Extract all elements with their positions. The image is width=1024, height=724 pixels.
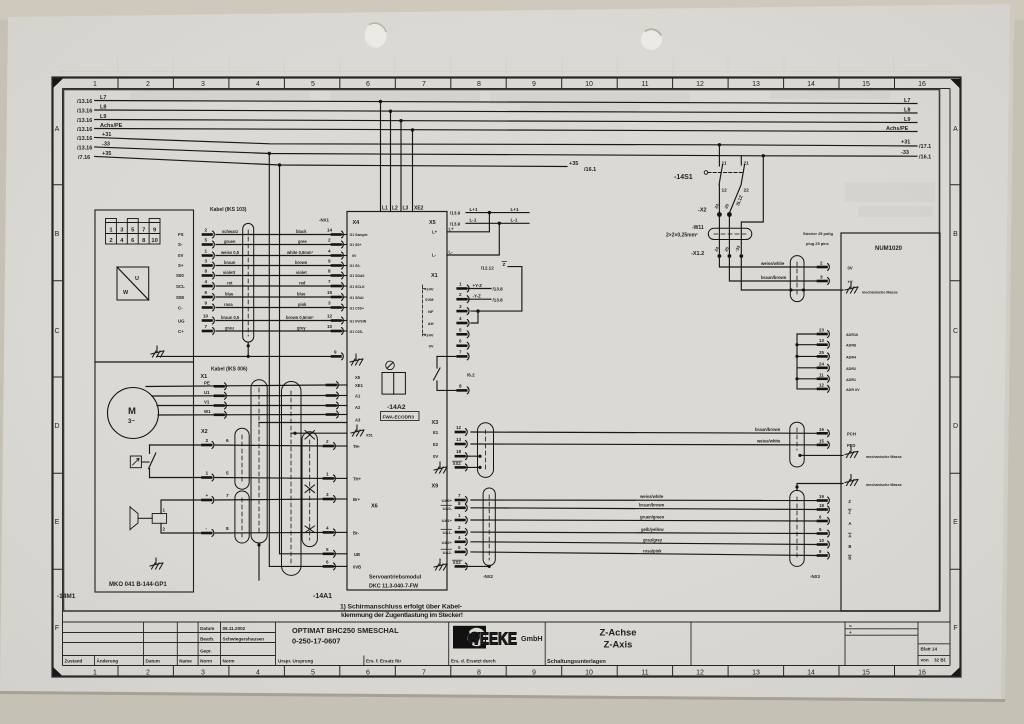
ground in encoder compartment	[151, 346, 164, 357]
shield ground wire to X4 pin 9	[157, 355, 332, 357]
motor wire W1	[158, 409, 347, 418]
row S-/gruen/gree/2/G1 S0+	[178, 238, 361, 248]
contact 11-12 blade	[719, 165, 723, 213]
row S0E/blau/blue/15/G1 SDAI	[176, 290, 364, 300]
motor wire U1	[152, 390, 347, 399]
pin 4 AH	[458, 320, 469, 327]
wire X2:24 down	[718, 216, 720, 254]
cable shield PCH	[790, 422, 804, 467]
paper bottom edge shadow	[0, 691, 1005, 702]
shield dash	[796, 262, 798, 295]
pin 5 +24V	[458, 331, 469, 338]
shield tube1 drain	[258, 543, 260, 580]
z-achse cell right line	[690, 622, 692, 666]
motor wire PE	[146, 381, 347, 390]
revision column lines	[95, 622, 276, 666]
X9 section	[432, 484, 496, 580]
wire 8 to servo	[215, 531, 324, 534]
wire braun/brown +Y	[729, 258, 818, 282]
wire weiss/white PFD	[471, 443, 818, 446]
shield drain wire to Masse	[800, 454, 843, 456]
twist mark 3	[305, 526, 315, 533]
title row line 1	[63, 632, 276, 634]
pin 3 into NUM	[818, 278, 829, 285]
grid numbers row2	[109, 238, 157, 244]
wire bus L9	[95, 120, 917, 123]
pin 13 ADR8	[818, 341, 829, 348]
twist mark 1	[305, 431, 315, 440]
encoder shield dash	[247, 230, 249, 336]
cable shield NX top	[790, 256, 804, 302]
pin 8	[458, 387, 469, 394]
wire drop -33 to X1.2	[741, 156, 763, 254]
screw head	[386, 361, 395, 370]
wire braun/brown Zbar	[471, 508, 818, 510]
ers f line	[363, 656, 365, 666]
pin 18 Zbar	[818, 506, 829, 513]
motor cable shield tube 2	[282, 382, 302, 576]
wire grau/grey B	[471, 542, 818, 545]
column ticks bottom	[118, 666, 895, 678]
corner triangle top-right	[951, 79, 961, 89]
pin 19 Z	[818, 497, 829, 504]
weeke cell right line	[544, 622, 546, 666]
firmware module -14A2	[381, 361, 420, 420]
corner triangle bottom-left	[53, 667, 63, 676]
wire L-	[447, 223, 499, 255]
brake solenoid	[130, 500, 212, 533]
switch actuator circle	[704, 171, 708, 175]
twist mark 2	[305, 485, 315, 493]
wire gelb/yellow Abar	[471, 532, 818, 533]
pin 10 B	[818, 541, 829, 548]
encoder connector grid	[106, 219, 161, 245]
ground X51	[351, 425, 364, 436]
bottom number strip line	[63, 665, 951, 667]
row S+/braun/brown/9/G1 S0-	[178, 259, 361, 269]
wire bus L7	[95, 101, 917, 104]
brake + lead	[161, 500, 212, 514]
contact 21-22	[729, 156, 744, 213]
X3 section	[432, 420, 494, 477]
row ticks right	[950, 185, 960, 570]
eq cell lines	[845, 622, 918, 666]
ADR coding block	[795, 328, 860, 393]
terminal X2:25	[728, 213, 732, 217]
ground mechanische Masse mid	[845, 447, 858, 458]
pin 6 A	[818, 518, 829, 525]
switch -14S1	[674, 156, 749, 213]
shield drain wire	[797, 484, 843, 491]
wire drop XE2	[412, 130, 414, 212]
X5 right section L+ L-	[432, 207, 529, 258]
net L+1 line	[466, 212, 529, 214]
shield tube X9	[483, 488, 495, 566]
encoder emulation bundle to NUM	[471, 475, 902, 580]
column numbers top	[93, 81, 926, 88]
dashed bracket	[422, 285, 424, 336]
servo left labels X5 XE1 A1 A2 A3	[355, 375, 364, 423]
paper right edge shade	[1001, 4, 1014, 699]
pin XS2	[456, 464, 467, 471]
servo drive box -14A1	[347, 212, 447, 591]
row UG/braun 0,5/brown/12/G1 0V SIN	[178, 314, 367, 324]
pin XS2	[456, 563, 467, 570]
net Z wire	[471, 267, 522, 312]
transducer U/W symbol	[117, 267, 149, 300]
punch hole right	[641, 29, 662, 50]
wire bus +31	[95, 138, 917, 147]
wire braun/brown PCH	[471, 432, 818, 433]
row C+/grau/grey/10/G1 C0S-	[178, 324, 364, 334]
temperature sensor	[130, 445, 156, 478]
shield drain wire lower	[291, 432, 347, 434]
pin 0VB	[324, 559, 361, 569]
X2 cable shield tube a	[235, 428, 249, 489]
left letter strip line	[62, 89, 64, 666]
scanner background top strip	[0, 0, 1024, 20]
bus labels right	[569, 98, 931, 173]
pin TH-	[324, 439, 361, 449]
brake terminal box	[152, 514, 166, 524]
wire bus L8	[95, 110, 917, 113]
wire rosa/pink Bbar	[471, 552, 818, 556]
shield tube X3	[478, 423, 494, 478]
brake - lead	[161, 523, 212, 533]
wire 7 to servo	[215, 499, 324, 500]
wire shield to masse	[741, 258, 843, 291]
wire X2:25 down	[728, 216, 730, 254]
wires X1.2 to NUM1020	[719, 258, 843, 291]
switch actuator dashed link	[708, 172, 742, 174]
ground X9	[434, 559, 447, 570]
top number strip line	[63, 88, 951, 90]
terminal strip -X2	[698, 202, 731, 254]
pin 24 ADR2	[818, 364, 829, 371]
grid numbers row1	[109, 228, 157, 234]
row S00/violett/violet/8/G1 SDA0	[176, 269, 365, 279]
pin 1 +24V	[458, 285, 469, 292]
pin 11 ADR1	[818, 375, 829, 382]
cable -W11	[666, 225, 752, 240]
shield dash W11	[714, 233, 746, 235]
ADR bus vertical	[797, 334, 818, 389]
X1 right section	[423, 262, 522, 394]
motor box divider	[95, 361, 194, 363]
pin 9 Bbar	[818, 552, 829, 559]
row letters right	[953, 126, 958, 632]
row SCL/rot/red/7/G1 SCLK	[176, 279, 365, 289]
punch hole left	[365, 23, 387, 48]
right letter strip line	[949, 89, 951, 666]
terminal X1.2:-33	[739, 254, 743, 258]
cable shield NX3	[790, 490, 804, 566]
blatt cell lines	[918, 622, 950, 666]
PCH PFD wires	[471, 422, 902, 467]
ground mechanische Masse lower	[845, 475, 858, 486]
pin 25 ADR4	[818, 353, 829, 360]
net L-1 line	[466, 222, 529, 224]
row ticks left	[53, 185, 63, 570]
outer frame	[53, 78, 961, 677]
pin TH+	[324, 471, 362, 481]
label FWA-ECODR3	[381, 412, 420, 421]
shield junction dots	[789, 288, 792, 291]
wire 6 to servo	[215, 445, 324, 446]
encoder cable shield	[243, 223, 254, 342]
pin 16 PCH	[818, 430, 829, 437]
project cell right line	[448, 622, 450, 666]
motor wire V1	[157, 400, 347, 409]
drawing area border	[64, 90, 940, 612]
corner triangle bottom-right	[951, 667, 961, 676]
wire weiss/white 0V	[719, 258, 818, 268]
brake coil symbol	[130, 507, 138, 531]
title block top line	[63, 621, 951, 623]
motor M 3~	[108, 388, 159, 439]
row C-/rosa/pink/3/G1 C0S+	[178, 301, 364, 311]
sensor link	[141, 461, 149, 463]
ground mechanische Masse top	[845, 282, 858, 293]
labels L1 L2 L3 XE2	[382, 206, 424, 212]
module body	[382, 373, 405, 395]
wire drop +31 to switch	[718, 145, 720, 166]
encoder cable rows	[176, 228, 368, 335]
wire drop +35 to UB	[280, 165, 325, 554]
corner triangle top-left	[53, 79, 63, 89]
ground at X4 pin 9	[350, 354, 363, 365]
wire drop L2	[390, 111, 392, 211]
terminal X2:24	[718, 213, 722, 217]
wire weiss/white Z	[471, 499, 818, 502]
X2 wire -/8	[203, 526, 325, 536]
pin 12 ADR 0V	[818, 386, 829, 393]
pin UB	[324, 547, 360, 557]
motor unit -14M1 box	[95, 210, 194, 592]
pin 6 0V	[458, 342, 469, 349]
terminal X1.2:24	[718, 254, 722, 258]
contact to pin 8	[434, 356, 458, 390]
header tick bleed ghost	[60, 58, 950, 74]
X2 wire 1/5	[150, 471, 325, 481]
bus labels left	[77, 95, 123, 161]
weeke logo block	[453, 626, 543, 649]
row letters left	[54, 126, 59, 632]
ground X3	[434, 462, 447, 473]
ADR bus dots	[795, 343, 798, 346]
shield dots	[478, 455, 481, 458]
motor cable shield tube 1	[251, 380, 267, 543]
column ticks top	[118, 78, 895, 89]
ground in motor compartment	[150, 558, 163, 569]
row OV/weiss/white/4/0V	[178, 249, 357, 259]
scan bleed-through ghosts	[130, 91, 935, 217]
X2 cable shield tube b	[235, 491, 249, 543]
pin 5 Abar	[818, 530, 829, 537]
shield drain wire upper	[259, 422, 347, 424]
wire drop -33 to 0VB	[269, 154, 324, 567]
terminal strip -X1.2	[691, 244, 743, 258]
title row line 2	[63, 642, 276, 644]
wire bus -33	[95, 147, 917, 156]
pin 3 NF	[458, 308, 469, 315]
wire L+	[447, 213, 489, 232]
pin 15 PFD	[818, 442, 829, 449]
shield drain dot	[798, 454, 801, 457]
wire gruen/green A	[471, 520, 818, 521]
encoder shield drain	[247, 342, 249, 356]
terminal X1.2:25	[728, 254, 732, 258]
shield dash	[796, 428, 798, 450]
pin 7	[458, 353, 469, 360]
title row line 3	[63, 655, 276, 657]
wire drop L3	[400, 121, 402, 212]
wire bus +35	[95, 157, 567, 167]
shield dash	[796, 497, 798, 560]
pin Br-	[324, 525, 360, 535]
X2 wire +/7	[203, 493, 325, 503]
net Z branch to AH	[471, 311, 478, 323]
pin 23 ADR16	[818, 331, 829, 338]
pin Br+	[324, 492, 361, 502]
pin 2 into NUM	[818, 264, 829, 271]
wire 5 to servo	[215, 477, 324, 480]
NUM1020 control box	[841, 233, 940, 611]
wire bus Achs/PE	[95, 129, 917, 132]
cable shield W11	[708, 228, 752, 239]
thermo contact	[149, 445, 156, 478]
wire drop L1	[380, 102, 382, 212]
row FS/schwarz/black/14/G1 Sample	[178, 228, 368, 238]
TITLEBLOCK	[63, 622, 951, 666]
junction dots on buses	[268, 100, 765, 167]
brake link	[138, 517, 152, 519]
pin 2 0VM	[458, 296, 469, 303]
column numbers bottom	[93, 670, 926, 677]
X2 wire 2/6	[150, 438, 325, 448]
twisted pair shield tube	[302, 432, 317, 547]
